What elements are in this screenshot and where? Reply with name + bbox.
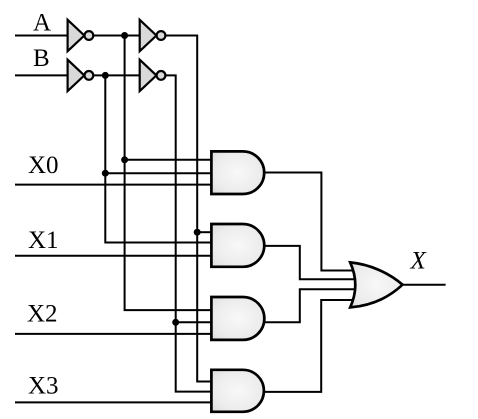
svg-text:X3: X3 bbox=[28, 372, 59, 399]
wire B net: U4 output right then down to AND4 middle input bbox=[165, 75, 211, 391]
node NOT-A to AND1 bbox=[121, 156, 128, 163]
node NOT-A junction bbox=[121, 32, 128, 39]
node A to AND2 bbox=[194, 229, 201, 236]
wire NOT-B vertical down to AND2 middle input bbox=[105, 75, 211, 242]
wire AND2 output to OR input 2 bbox=[263, 246, 356, 279]
wire X3 to AND4 bottom input bbox=[15, 401, 211, 403]
wire X output bbox=[403, 284, 446, 286]
inverter U3 (B first inverter) bbox=[68, 60, 94, 91]
wire B branch to AND3 middle input bbox=[176, 321, 212, 323]
inverter U1 (A first inverter) bbox=[68, 20, 94, 51]
and-gate U6 (X1 term) bbox=[211, 224, 264, 267]
wire NOT-A vertical down to AND3 top input bbox=[125, 36, 212, 311]
node NOT-B to AND1 bbox=[102, 170, 109, 177]
svg-text:X1: X1 bbox=[28, 227, 59, 254]
and-gate U5 (X0 term) bbox=[211, 151, 264, 194]
wire X0 to AND1 bottom input bbox=[15, 184, 211, 186]
node NOT-B junction bbox=[102, 72, 109, 79]
or-gate U9 bbox=[350, 262, 402, 307]
wire U3 output to U4 bbox=[93, 74, 140, 76]
wire NOT-B branch to AND1 middle input bbox=[105, 172, 211, 174]
wire A net: U2 output right then down to AND4 top input bbox=[165, 36, 211, 382]
wire X2 to AND3 bottom input bbox=[15, 333, 211, 335]
wire U1 output to U2 bbox=[93, 35, 140, 37]
svg-text:A: A bbox=[33, 10, 51, 37]
wire B input lead bbox=[15, 74, 69, 76]
inverter U4 (B second inverter) bbox=[140, 60, 166, 91]
inverter U2 (A second inverter) bbox=[140, 20, 166, 51]
wire NOT-A branch to AND1 top input bbox=[125, 159, 212, 161]
wire AND4 output to OR input 4 bbox=[263, 300, 356, 392]
wire A branch to AND2 top input bbox=[197, 231, 211, 233]
wire AND3 output to OR input 3 bbox=[262, 289, 356, 322]
svg-text:B: B bbox=[33, 45, 50, 72]
wire X1 to AND2 bottom input bbox=[15, 255, 211, 257]
wire AND1 output to OR input 1 bbox=[263, 173, 356, 271]
svg-text:X: X bbox=[410, 248, 428, 275]
wire A input lead bbox=[15, 35, 69, 37]
and-gate U8 (X3 term) bbox=[211, 370, 264, 412]
svg-text:X0: X0 bbox=[28, 152, 59, 179]
and-gate U7 (X2 term) bbox=[211, 297, 264, 340]
svg-text:X2: X2 bbox=[27, 300, 58, 327]
node B to AND3 bbox=[172, 319, 179, 326]
